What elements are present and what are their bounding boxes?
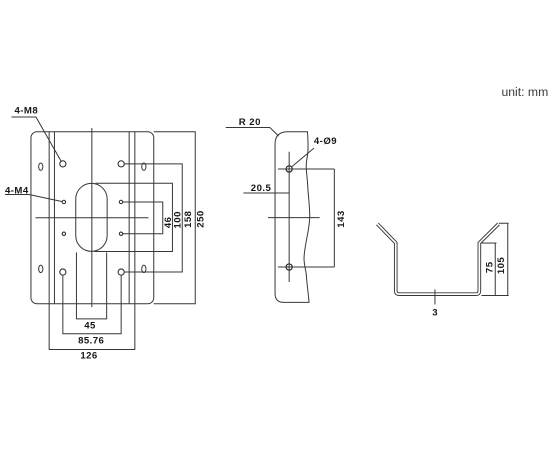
front view: left fold line outer (126 extension) <box>48 132 50 350</box>
dim 250 line <box>194 132 196 304</box>
dim 45 line <box>76 318 106 320</box>
side view: hole top with crosshair <box>286 166 292 172</box>
leader 4-M4 <box>5 194 62 201</box>
dim 75/105 bottom tick <box>481 294 508 296</box>
dim 85.76 extension right <box>120 275 122 334</box>
svg-text:250: 250 <box>195 210 206 227</box>
front view: M4 hole bottom-left <box>62 232 65 235</box>
svg-text:20.5: 20.5 <box>251 183 272 194</box>
front view: vertical centerline <box>91 128 93 307</box>
front view: M4 hole top-left <box>62 200 65 203</box>
svg-text:126: 126 <box>80 350 97 361</box>
side view: outline with wavy break edge <box>275 132 310 303</box>
front view: M8 hole top-left <box>60 161 66 167</box>
dim 143 line <box>333 169 335 267</box>
dim 45 extension right <box>106 252 108 319</box>
svg-text:85.76: 85.76 <box>78 336 104 347</box>
dim 158 connector top <box>124 163 182 165</box>
leader R 20 <box>226 127 279 136</box>
leader 4-M8 <box>11 117 61 162</box>
side view: holes vertical centerline <box>288 152 290 282</box>
dim 46 connector top <box>123 201 163 203</box>
front view: left fold line inner <box>53 132 55 304</box>
leader 3 <box>434 289 436 304</box>
dim 85.76 extension left <box>62 275 64 334</box>
dim 46 connector bottom <box>123 233 163 235</box>
svg-text:105: 105 <box>496 257 507 275</box>
front view: flange oval slot bottom-left <box>39 265 43 272</box>
front view: flange oval slot bottom-right <box>142 265 146 272</box>
side view: hole bottom with crosshair <box>286 264 292 270</box>
front view: M8 hole top-right <box>118 161 124 167</box>
svg-text:4-Ø9: 4-Ø9 <box>314 136 337 147</box>
channel cross-section sheet <box>377 224 498 294</box>
dim 158 connector bottom <box>124 271 182 273</box>
dim 75 tick <box>481 242 496 244</box>
svg-text:75: 75 <box>485 261 496 273</box>
front view: flange oval slot top-left <box>39 163 43 170</box>
side view: horizontal centerline <box>268 217 320 219</box>
svg-text:unit: mm: unit: mm <box>502 85 549 99</box>
front view: horizontal centerline <box>35 217 148 219</box>
leader 4-Ø9 <box>291 148 314 167</box>
svg-text:4-M8: 4-M8 <box>15 106 39 117</box>
svg-text:45: 45 <box>84 321 96 332</box>
front view: central obround slot <box>76 183 107 251</box>
dim 126 line <box>49 348 135 350</box>
dim 75 line <box>494 243 496 295</box>
svg-text:3: 3 <box>432 308 438 319</box>
dim 46 line <box>162 202 164 234</box>
front view: M4 hole bottom-right <box>119 232 122 235</box>
svg-text:143: 143 <box>336 210 347 227</box>
svg-text:158: 158 <box>183 210 194 228</box>
dim 85.76 line <box>63 333 121 335</box>
dim 45 extension left <box>75 252 77 319</box>
side view: hole bottom horizontal line to dim 143 <box>278 266 334 268</box>
dim 250 connector bottom <box>154 303 196 305</box>
dim 100 connector bottom <box>94 250 172 252</box>
front view: right fold line outer (126 extension) <box>134 132 136 350</box>
front view: plate outline <box>31 132 154 304</box>
dim 105 line <box>507 223 509 295</box>
dim 100 connector top <box>95 182 172 184</box>
front view: M4 hole top-right <box>119 200 122 203</box>
front view: right fold line inner <box>128 132 130 304</box>
dim 158 line <box>181 164 183 272</box>
svg-text:R 20: R 20 <box>239 117 261 128</box>
dim 250 connector top <box>154 131 196 133</box>
front view: flange oval slot top-right <box>142 163 146 170</box>
side view: hole top horizontal line to dim 143 <box>278 168 334 170</box>
dim 100 line <box>171 183 173 251</box>
front view: M8 hole bottom-left <box>60 269 66 275</box>
svg-text:4-M4: 4-M4 <box>5 185 29 196</box>
dim 105 tick <box>499 222 509 224</box>
front view: M8 hole bottom-right <box>118 269 124 275</box>
leader 20.5 underline <box>243 192 289 194</box>
